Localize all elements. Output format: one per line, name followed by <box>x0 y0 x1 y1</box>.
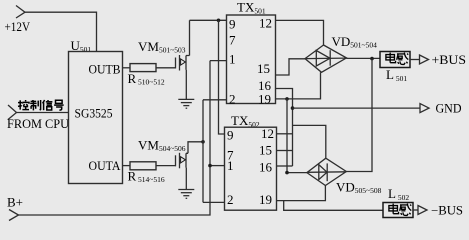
node junction dot VM504 drain to pin2 rail <box>201 140 205 144</box>
inductor L501 box (电感) <box>380 52 410 68</box>
svg-text:19: 19 <box>259 192 272 207</box>
transistor VM501~503 MOSFET <box>176 55 190 71</box>
node junction dot pin9 rail <box>217 19 221 23</box>
resistor R514~516 <box>130 162 156 170</box>
transformer TX501 box <box>227 15 276 104</box>
wire VM501 source to ground <box>185 70 187 100</box>
svg-text:OUTB: OUTB <box>89 62 121 77</box>
svg-text:SG3525: SG3525 <box>75 106 113 121</box>
node junction dot GND rail start <box>291 106 295 110</box>
node junction dot B+ TX502 pin1 <box>208 164 212 168</box>
svg-text:15: 15 <box>257 61 270 76</box>
wire R510 to VM501 gate <box>156 67 176 69</box>
diode bridge VD505~508 <box>307 158 346 185</box>
wire OUTB to R510 <box>123 67 131 69</box>
IC U501 SG3525 box <box>69 52 123 184</box>
ground 1 <box>178 99 194 108</box>
svg-text:2: 2 <box>227 192 234 207</box>
inductor L502 box (电感) <box>383 203 413 218</box>
wire B+ to TX501 pin 1 <box>210 60 227 62</box>
wire control signal to U501 <box>17 112 69 114</box>
transistor VM504~506 MOSFET <box>176 153 189 169</box>
wire TX502 pin19 to bridge2 bottom <box>277 186 326 201</box>
wire pin19 tap down to L502 <box>284 201 383 211</box>
svg-text:12: 12 <box>261 126 274 141</box>
wire OUTA to R514 <box>123 165 131 167</box>
wire TX501 pin2 rail down to TX502 pin2 <box>202 100 204 203</box>
wire TX502 pin12 stub <box>277 133 293 135</box>
wire TX502 pin 2 stub <box>203 201 225 203</box>
resistor R510~512 <box>130 64 156 72</box>
GND output arrow <box>420 104 429 113</box>
node junction dot +BUS rail <box>370 57 374 61</box>
diode bridge VD501~504 <box>305 45 347 72</box>
svg-text:1: 1 <box>229 52 236 67</box>
node junction dot pin19/VA <box>285 97 289 101</box>
svg-text:9: 9 <box>229 17 236 32</box>
wire VM504 source to ground <box>185 168 187 190</box>
wire TX501 pin19 to bridge1 bottom <box>276 72 321 99</box>
svg-text:−BUS: −BUS <box>431 204 463 218</box>
control signal input arrow <box>8 105 17 120</box>
wire +12V to U501 VCC <box>25 12 97 51</box>
svg-text:7: 7 <box>229 33 236 48</box>
+12V input arrow <box>16 6 25 19</box>
svg-text:2: 2 <box>229 92 236 107</box>
wire B+ rail <box>19 61 211 215</box>
wire pin9 rail down to TX502 pin 9 <box>219 20 225 134</box>
wire TX501 pin15 to bridge1 left <box>276 59 306 75</box>
node label 控制信号 (drawn strokes) <box>18 100 64 110</box>
svg-text:OUTA: OUTA <box>89 158 122 173</box>
svg-text:1: 1 <box>227 158 234 173</box>
wire bridge1 right to L501 <box>347 57 381 59</box>
wire TX501 pin16 down (center tap rail) <box>276 89 293 167</box>
wire node to TX501 pin 9 <box>190 19 227 21</box>
wire VM501 drain up to node <box>189 20 191 55</box>
svg-text:GND: GND <box>436 102 462 116</box>
node junction dot VA bottom <box>285 171 289 175</box>
svg-text:B+: B+ <box>7 195 23 210</box>
wire TX502 pin16 stub <box>277 165 293 167</box>
wire VM504 drain up and right to pin2 rail <box>188 142 203 154</box>
wire TX502 pin15 stub <box>277 150 293 152</box>
svg-text:15: 15 <box>259 143 272 158</box>
B+ input arrow <box>9 210 19 221</box>
svg-text:9: 9 <box>227 128 234 143</box>
wire VA down to bridge2 left <box>287 99 307 173</box>
svg-text:16: 16 <box>259 160 273 175</box>
wire L502 to -BUS <box>413 209 418 211</box>
svg-text:+BUS: +BUS <box>432 53 467 67</box>
svg-text:19: 19 <box>258 92 271 107</box>
wire R514 to VM504 gate <box>156 165 176 167</box>
-BUS output arrow <box>418 206 427 215</box>
svg-text:+12V: +12V <box>5 20 31 34</box>
svg-text:12: 12 <box>259 16 272 31</box>
wire B+ to TX502 pin 1 <box>210 165 225 167</box>
svg-text:FROM CPU: FROM CPU <box>7 116 70 131</box>
ground 2 <box>178 190 194 199</box>
wire GND rail <box>293 107 421 109</box>
wire TX501 pin12 to bridge1 top <box>276 20 324 45</box>
wire L501 to +BUS <box>410 59 420 61</box>
+BUS output arrow <box>420 55 429 64</box>
wire bridge2 top up and left to center rail <box>293 125 326 158</box>
wire bridge2 right up to +BUS rail <box>346 59 372 172</box>
transformer TX502 box <box>225 127 277 210</box>
wire TX501 pin 2 stub <box>203 99 227 101</box>
